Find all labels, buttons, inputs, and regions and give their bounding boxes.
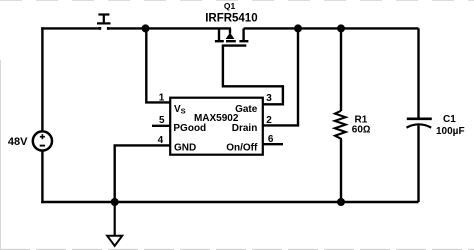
svg-text:On/Off: On/Off (226, 142, 258, 153)
svg-text:4: 4 (158, 135, 164, 146)
svg-text:Q1: Q1 (224, 1, 236, 11)
voltage source 48V (33, 131, 52, 150)
wire from node to pin 1 Vs (146, 28, 170, 102)
pin 5 PGood stub (152, 125, 170, 127)
wire left rail top (41, 27, 43, 131)
svg-text:C1: C1 (443, 114, 456, 125)
wire pin 4 GND to ground node (115, 145, 170, 202)
scan edge artifact bottom (0, 248, 474, 250)
node junction top-left (142, 24, 150, 32)
transistor Q1 MOSFET (215, 28, 249, 45)
node R1 top junction (337, 24, 345, 32)
svg-text:Drain: Drain (232, 123, 258, 134)
svg-text:48V: 48V (8, 136, 28, 148)
svg-text:IRFR5410: IRFR5410 (205, 13, 257, 25)
svg-text:100µF: 100µF (436, 126, 465, 137)
wire gate of Q1 to pin 3 (223, 46, 283, 105)
node ground junction (111, 198, 119, 206)
wire top rail right segment from Q1 drain (244, 27, 419, 29)
pin 6 On/Off stub (263, 143, 283, 145)
wire top rail middle segment to Q1 source (108, 27, 231, 29)
node R1 bottom junction (337, 198, 345, 206)
svg-text:6: 6 (268, 134, 274, 145)
wire drain node to pin 2 (263, 28, 298, 125)
svg-text:60Ω: 60Ω (352, 124, 371, 135)
svg-text:5: 5 (159, 115, 165, 126)
ground (107, 202, 122, 246)
wire bottom rail (41, 201, 418, 203)
wire top rail left segment (41, 27, 100, 29)
wire left rail bottom (41, 151, 43, 204)
scan edge artifact left (0, 60, 2, 250)
svg-text:3: 3 (266, 93, 272, 104)
node drain junction (294, 24, 302, 32)
svg-text:GND: GND (174, 142, 196, 153)
switch S1 pushbutton (97, 15, 111, 30)
svg-text:1: 1 (159, 92, 165, 103)
capacitor C1 100uF (407, 28, 432, 202)
scan edge artifact top (0, 0, 474, 2)
op-amp U1 MAX5902 box (170, 98, 263, 155)
svg-text:Gate: Gate (235, 104, 258, 115)
svg-text:VS: VS (174, 104, 186, 116)
resistor R1 60ohm (335, 28, 346, 202)
svg-text:PGood: PGood (173, 123, 206, 134)
svg-text:2: 2 (266, 115, 272, 126)
